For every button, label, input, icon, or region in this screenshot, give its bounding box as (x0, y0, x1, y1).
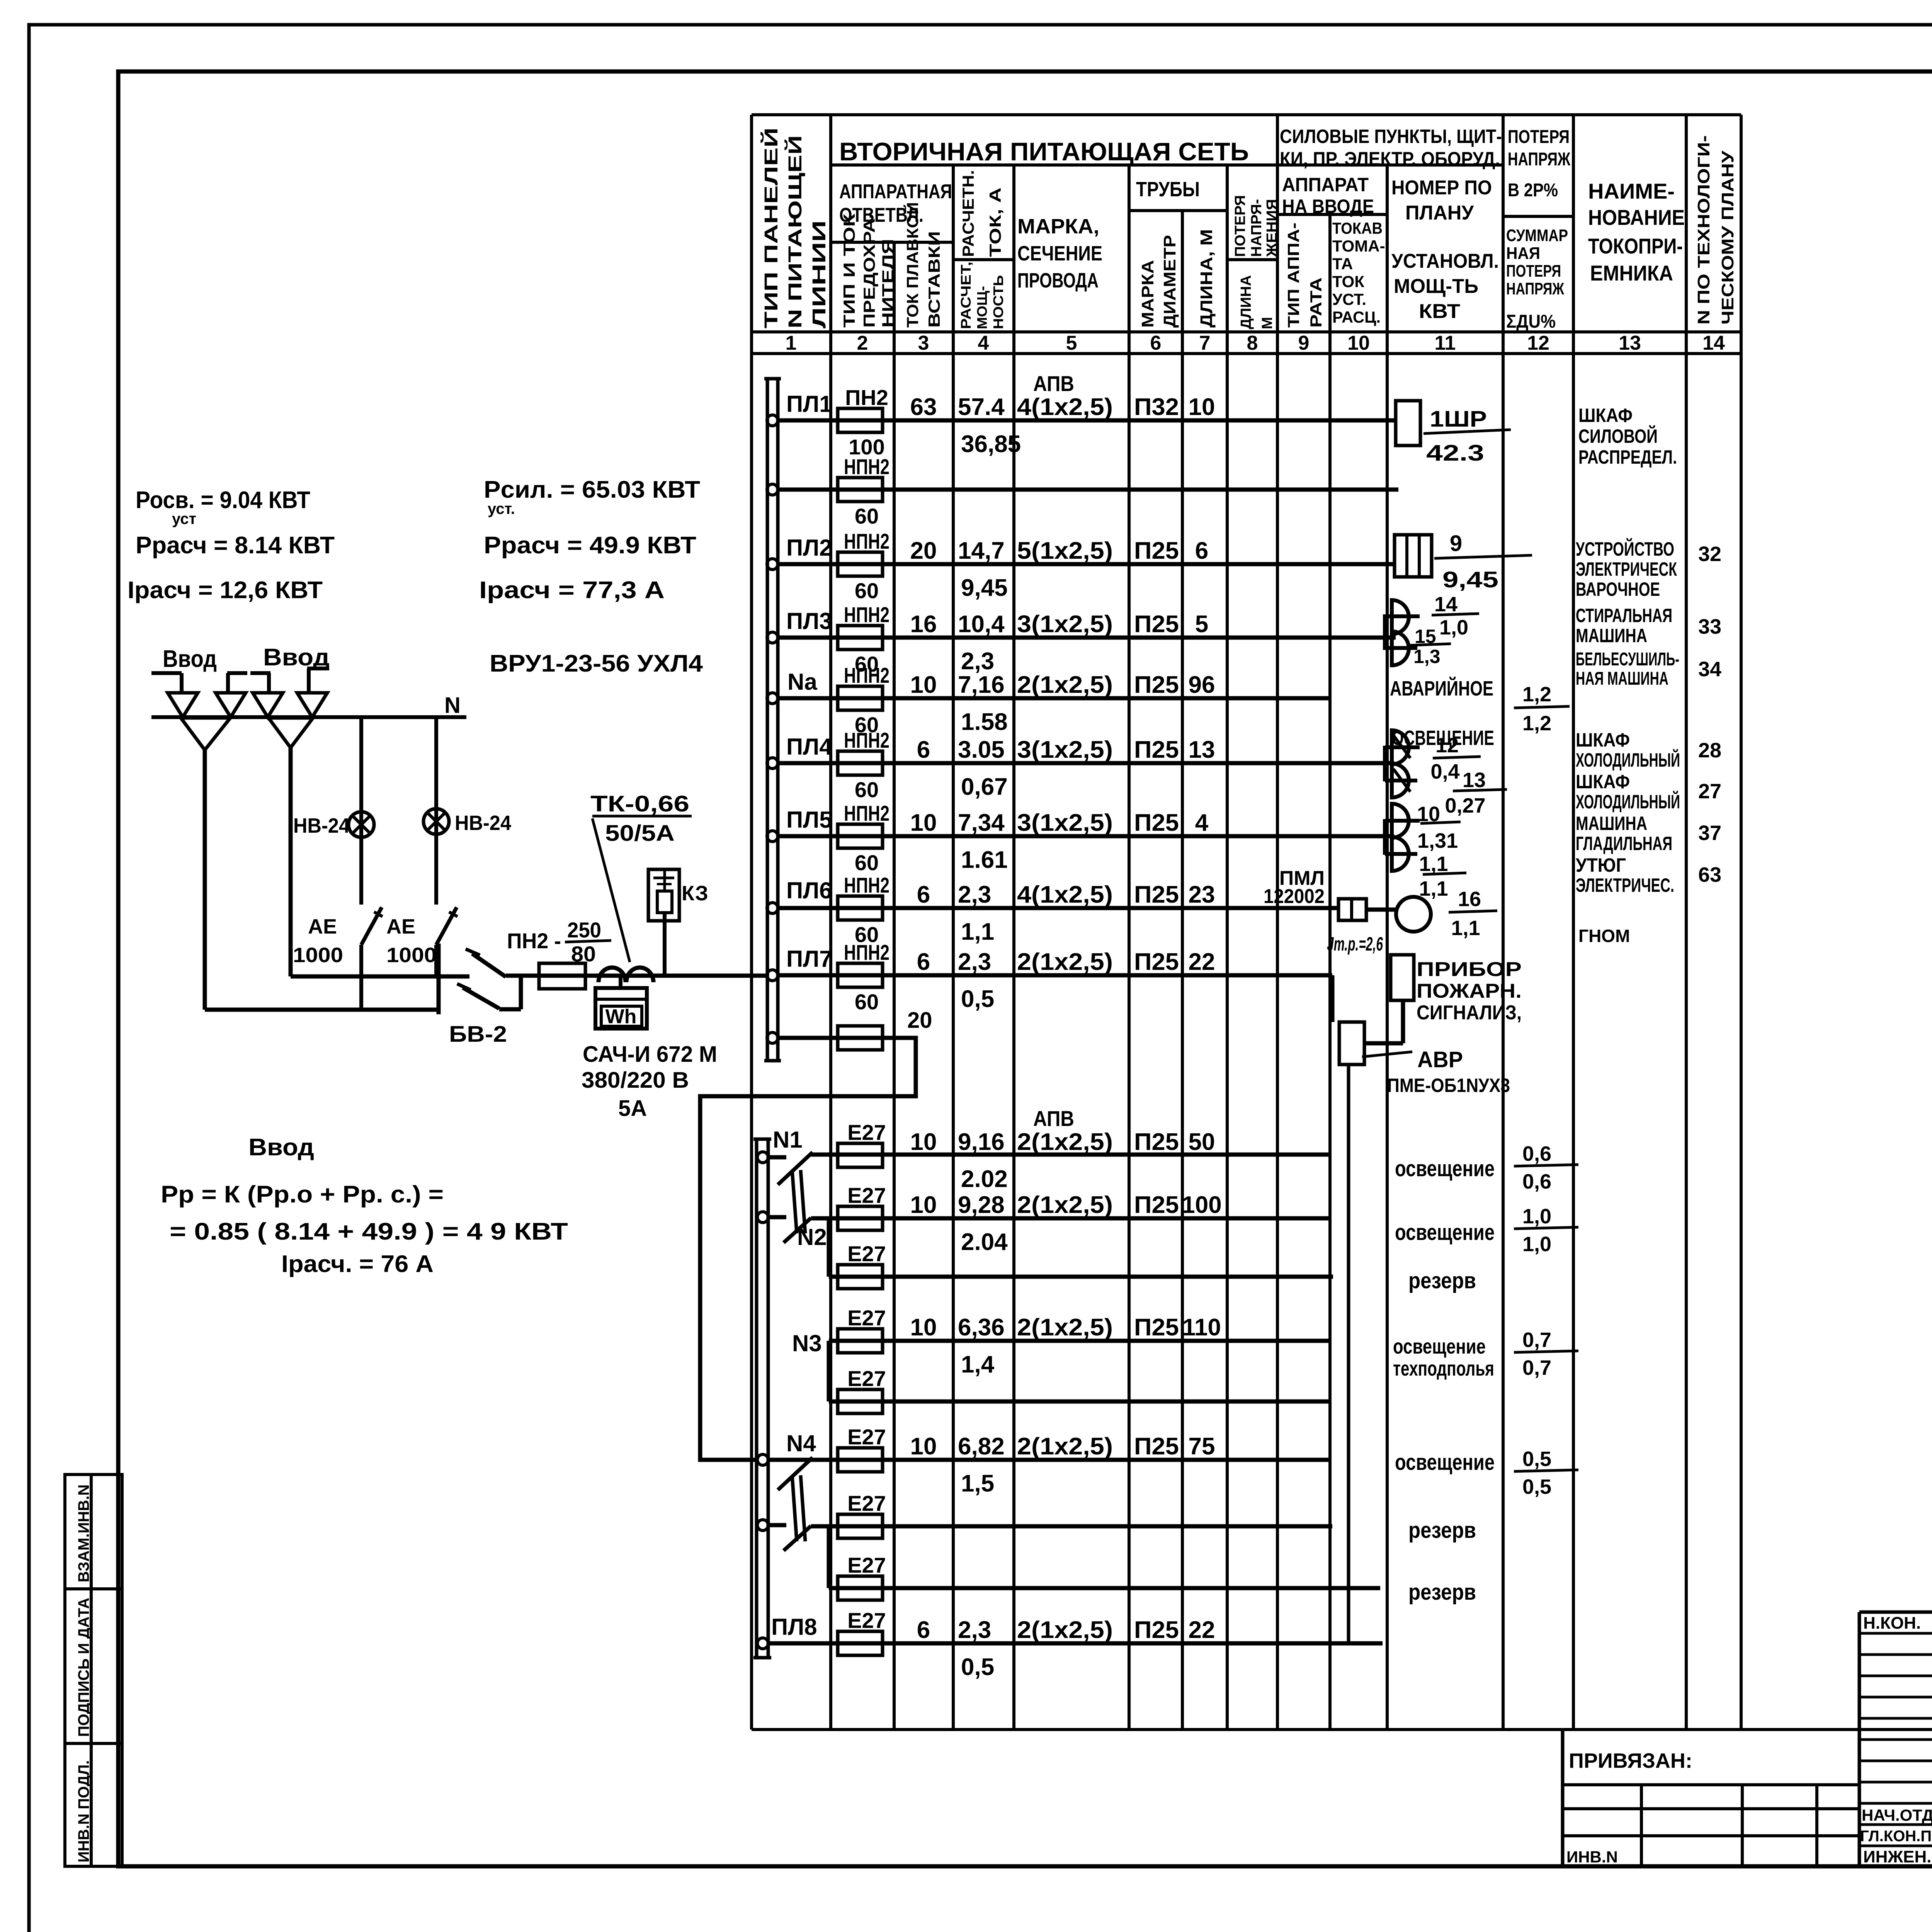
svg-text:33: 33 (1698, 615, 1721, 638)
svg-text:резерв: резерв (1408, 1518, 1476, 1543)
svg-text:8: 8 (1247, 332, 1258, 354)
svg-text:ТК-0,66: ТК-0,66 (590, 791, 689, 816)
svg-text:СУММАР: СУММАР (1506, 226, 1568, 245)
svg-text:ЖЕНИЯ: ЖЕНИЯ (1264, 199, 1280, 257)
svg-text:110: 110 (1182, 1314, 1221, 1341)
svg-text:1,3: 1,3 (1413, 646, 1440, 667)
svg-text:ПЛ8: ПЛ8 (771, 1614, 817, 1640)
wire reserve 1 (829, 1275, 1333, 1279)
svg-text:32: 32 (1698, 543, 1721, 566)
svg-text:2(1х2,5): 2(1х2,5) (1017, 1314, 1113, 1341)
svg-text:АВР: АВР (1417, 1047, 1463, 1072)
svg-text:60: 60 (855, 777, 879, 802)
svg-text:1,0: 1,0 (1522, 1233, 1551, 1256)
svg-text:ИНВ.N: ИНВ.N (1566, 1848, 1618, 1866)
svg-text:0,7: 0,7 (1522, 1328, 1551, 1352)
table vertical x=4364 (1685, 115, 1688, 1730)
svg-text:14: 14 (1434, 593, 1458, 616)
svg-text:6,82: 6,82 (958, 1433, 1005, 1460)
wire feeder ПЛ2 (767, 559, 778, 570)
table vertical x=3890 (1502, 115, 1505, 1730)
table vertical x=2467 (952, 165, 955, 1730)
svg-text:5А: 5А (618, 1096, 647, 1121)
table vertical x=3176 (1226, 165, 1229, 1730)
wire feeder ПЛ5 (767, 831, 778, 842)
svg-text:50/5А: 50/5А (605, 821, 675, 846)
svg-text:Е27: Е27 (847, 1491, 886, 1515)
svg-text:УСТРОЙСТВО: УСТРОЙСТВО (1576, 538, 1674, 560)
svg-text:3(1х2,5): 3(1х2,5) (1017, 611, 1113, 638)
svg-text:В 2Р%: В 2Р% (1508, 180, 1558, 201)
svg-text:75: 75 (1189, 1433, 1215, 1460)
svg-text:ШКАФ: ШКАФ (1576, 771, 1630, 793)
svg-text:ТОМА-: ТОМА- (1332, 237, 1385, 255)
svg-text:2.04: 2.04 (961, 1229, 1008, 1255)
svg-text:60: 60 (855, 504, 879, 528)
refrigerator lamp symbols ПЛ4 (1383, 746, 1387, 781)
svg-text:N2: N2 (797, 1224, 827, 1250)
svg-text:уст: уст (172, 510, 196, 527)
svg-text:ПОТЕРЯ: ПОТЕРЯ (1232, 195, 1248, 257)
svg-text:5: 5 (1195, 611, 1208, 638)
leader ТК (592, 818, 630, 962)
svg-text:1,4: 1,4 (961, 1351, 995, 1378)
svg-text:АПВ: АПВ (1033, 371, 1074, 396)
svg-text:N1: N1 (773, 1127, 803, 1153)
wire spare (N3 group) (829, 1400, 1331, 1404)
svg-text:освещение: освещение (1393, 1335, 1486, 1358)
svg-text:23: 23 (1189, 881, 1215, 908)
svg-text:1ШР: 1ШР (1430, 406, 1487, 432)
current transformer ТК-0,66 (599, 968, 626, 982)
svg-text:13: 13 (1619, 332, 1641, 354)
svg-text:10: 10 (910, 1433, 937, 1460)
svg-text:техподполья: техподполья (1393, 1357, 1494, 1380)
svg-text:НПН2: НПН2 (844, 801, 889, 825)
svg-text:Е27: Е27 (847, 1306, 886, 1330)
left margin stamp boxes (65, 1475, 122, 1866)
svg-text:9,16: 9,16 (958, 1129, 1005, 1155)
svg-text:16: 16 (1458, 888, 1481, 911)
svg-text:Nа: Nа (787, 669, 817, 695)
fuse НПН2-60 (spare) (838, 478, 883, 502)
svg-text:1000: 1000 (293, 944, 343, 967)
svg-text:1,0: 1,0 (1439, 616, 1468, 639)
svg-text:РАСЧЕТН.: РАСЧЕТН. (959, 170, 977, 257)
svg-text:4(1х2,5): 4(1х2,5) (1017, 394, 1113, 420)
lamp load symbols ПЛ3 (1383, 614, 1387, 650)
fire alarm device box (1391, 955, 1414, 1000)
svg-text:Iрасч = 77,3 А: Iрасч = 77,3 А (479, 577, 665, 604)
svg-text:9,28: 9,28 (958, 1192, 1005, 1218)
fuse Е27 (reserve 2) (838, 1514, 883, 1538)
svg-text:ЕМНИКА: ЕМНИКА (1590, 261, 1673, 285)
large triangles (inputs combine) (181, 718, 230, 750)
svg-text:Е27: Е27 (847, 1366, 886, 1391)
svg-text:N3: N3 (792, 1330, 822, 1356)
svg-text:Рсил. = 65.03 КВТ: Рсил. = 65.03 КВТ (484, 476, 700, 503)
svg-text:ПОЖАРН.: ПОЖАРН. (1417, 980, 1522, 1002)
svg-text:Е27: Е27 (847, 1242, 886, 1266)
svg-text:6: 6 (917, 881, 930, 908)
table vertical x=4072 (1572, 115, 1575, 1730)
wire feeder to lighting panel (down-left) (767, 1032, 778, 1043)
svg-text:НПН2: НПН2 (844, 663, 889, 687)
fuse (feeder to lighting panel) (838, 1026, 883, 1050)
svg-text:резерв: резерв (1408, 1268, 1476, 1293)
svg-text:САЧ-И 672 М: САЧ-И 672 М (583, 1042, 717, 1067)
svg-text:N ПО ТЕХНОЛОГИ-: N ПО ТЕХНОЛОГИ- (1694, 135, 1713, 325)
wire АВР down to ПЛ8 row (1347, 1065, 1350, 1643)
svg-text:12: 12 (1527, 332, 1549, 354)
svg-text:П25: П25 (1134, 1314, 1179, 1341)
svg-text:2(1х2,5): 2(1х2,5) (1017, 672, 1113, 698)
svg-text:АППАРАТ: АППАРАТ (1282, 174, 1369, 196)
svg-text:АПВ: АПВ (1033, 1106, 1074, 1131)
stub reserve 3 (827, 1526, 831, 1588)
fuse Е27 (spare N3 group) (838, 1389, 883, 1413)
input cable arrows (151, 671, 182, 675)
svg-text:0,6: 0,6 (1522, 1142, 1551, 1165)
svg-text:ХОЛОДИЛЬНЫЙ: ХОЛОДИЛЬНЫЙ (1576, 749, 1680, 771)
energy meter Wh (619, 975, 622, 988)
fuse Е27 (N1) (838, 1143, 883, 1167)
svg-text:МАШИНА: МАШИНА (1576, 813, 1647, 834)
svg-text:10: 10 (1189, 394, 1215, 420)
wire from triangle 2 down (289, 748, 293, 976)
svg-text:НАЯ: НАЯ (1506, 244, 1540, 263)
svg-text:10: 10 (910, 1192, 937, 1218)
svg-text:НПН2: НПН2 (844, 529, 889, 553)
iron lamp symbols ПЛ5 (1383, 819, 1387, 855)
svg-text:13: 13 (1463, 769, 1486, 792)
svg-text:250: 250 (567, 918, 601, 942)
svg-text:20: 20 (910, 537, 937, 564)
col8 divider (1227, 258, 1277, 261)
svg-text:ШКАФ: ШКАФ (1576, 729, 1630, 751)
svg-text:2: 2 (857, 332, 868, 354)
svg-text:Е27: Е27 (847, 1425, 886, 1449)
svg-text:14: 14 (1702, 332, 1725, 354)
wire feeder N1 (757, 1152, 768, 1163)
svg-text:АЕ: АЕ (386, 915, 415, 938)
svg-text:ГЛАДИЛЬНАЯ: ГЛАДИЛЬНАЯ (1576, 833, 1672, 854)
svg-text:ХОЛОДИЛЬНЫЙ: ХОЛОДИЛЬНЫЙ (1576, 791, 1680, 813)
svg-text:4: 4 (978, 332, 989, 354)
svg-text:6: 6 (917, 1617, 930, 1643)
svg-text:100: 100 (1182, 1192, 1221, 1218)
svg-text:освещение: освещение (1395, 1220, 1495, 1245)
svg-text:22: 22 (1189, 1617, 1215, 1643)
svg-text:МАШИНА: МАШИНА (1576, 625, 1647, 646)
svg-text:ПЛ6: ПЛ6 (786, 878, 832, 903)
svg-text:10: 10 (910, 672, 937, 698)
lamp НВ-24 (1) (349, 812, 374, 837)
svg-text:Ввод: Ввод (248, 1134, 314, 1161)
svg-text:Е27: Е27 (847, 1183, 886, 1207)
fuse НПН2-60 (ПЛ4) (838, 751, 883, 775)
svg-text:ЛИНИИ: ЛИНИИ (809, 220, 830, 328)
svg-text:НА ВВОДЕ: НА ВВОДЕ (1282, 196, 1374, 217)
svg-text:2(1х2,5): 2(1х2,5) (1017, 949, 1113, 975)
svg-text:ТОК ПЛАВКОЙ: ТОК ПЛАВКОЙ (903, 202, 922, 328)
table vertical x=3590 (1386, 165, 1389, 1730)
svg-text:АППАРАТНАЯ: АППАРАТНАЯ (839, 180, 952, 203)
svg-text:50: 50 (1189, 1129, 1215, 1155)
svg-text:0,7: 0,7 (1522, 1356, 1551, 1379)
svg-text:ТОК, А: ТОК, А (986, 187, 1004, 257)
svg-text:37: 37 (1698, 821, 1721, 845)
svg-text:ГНОМ: ГНОМ (1578, 926, 1630, 946)
svg-text:РАСЦ.: РАСЦ. (1332, 308, 1381, 326)
svg-text:3.05: 3.05 (958, 736, 1005, 763)
motor ГНОМ circle (1396, 897, 1431, 932)
table vertical x=2150 (829, 115, 832, 1730)
svg-text:0,5: 0,5 (1522, 1447, 1551, 1471)
svg-text:П25: П25 (1134, 1129, 1179, 1155)
svg-text:СИГНАЛИЗ,: СИГНАЛИЗ, (1417, 1002, 1522, 1024)
svg-text:ПЛ2: ПЛ2 (786, 535, 832, 561)
line under Трубы (1129, 209, 1227, 212)
table vertical x=4506 (1740, 115, 1743, 1730)
svg-text:УТЮГ: УТЮГ (1576, 854, 1626, 876)
svg-text:ДИАМЕТР: ДИАМЕТР (1160, 235, 1179, 328)
svg-text:ПОТЕРЯ: ПОТЕРЯ (1508, 127, 1570, 147)
fuse КЗ box (648, 869, 679, 921)
svg-text:ЧЕСКОМУ ПЛАНУ: ЧЕСКОМУ ПЛАНУ (1718, 150, 1737, 325)
stub N3 (827, 1341, 831, 1401)
table vertical x=2922 (1128, 165, 1131, 1730)
svg-text:0,6: 0,6 (1522, 1170, 1551, 1193)
svg-text:НАПРЯЖ: НАПРЯЖ (1508, 149, 1570, 170)
table vertical x=3306 (1276, 115, 1279, 1730)
svg-text:6: 6 (1195, 537, 1208, 564)
switch АЕ1000 blade 2 (436, 907, 457, 945)
svg-text:П25: П25 (1134, 1433, 1179, 1460)
fuse НПН2-60 (ПЛ2) (838, 552, 883, 576)
fuse Е27 (N3) (838, 1329, 883, 1353)
svg-text:3(1х2,5): 3(1х2,5) (1017, 810, 1113, 836)
svg-text:ПОДПИСЬ И ДАТА: ПОДПИСЬ И ДАТА (75, 1598, 92, 1737)
svg-text:ПЛ1: ПЛ1 (786, 391, 832, 417)
svg-text:1,0: 1,0 (1522, 1205, 1551, 1228)
svg-text:36,85: 36,85 (961, 431, 1021, 457)
svg-text:Ррасч = 8.14 КВТ: Ррасч = 8.14 КВТ (136, 532, 335, 559)
svg-text:1,1: 1,1 (1419, 877, 1448, 900)
svg-text:КИ, ПР. ЭЛЕКТР. ОБОРУД.: КИ, ПР. ЭЛЕКТР. ОБОРУД. (1280, 148, 1500, 170)
svg-text:N: N (444, 693, 461, 718)
table bottom / title block top line (752, 1728, 1932, 1731)
svg-text:ДЛИНА: ДЛИНА (1238, 275, 1254, 329)
svg-text:НОВАНИЕ: НОВАНИЕ (1588, 205, 1685, 230)
svg-text:5(1х2,5): 5(1х2,5) (1017, 537, 1113, 564)
svg-text:6: 6 (1150, 332, 1162, 354)
switch АЕ1000 blade 1 (361, 907, 382, 945)
svg-text:380/220 В: 380/220 В (582, 1068, 689, 1093)
svg-text:ВРУ1-23-56 УХЛ4: ВРУ1-23-56 УХЛ4 (490, 650, 703, 677)
fuse Е27 (ПЛ8) (838, 1631, 883, 1655)
svg-text:НАЯ МАШИНА: НАЯ МАШИНА (1576, 668, 1668, 689)
svg-text:28: 28 (1698, 739, 1721, 762)
fuse Е27 (N4) (838, 1448, 883, 1472)
svg-text:ВТОРИЧНАЯ ПИТАЮЩАЯ СЕТЬ: ВТОРИЧНАЯ ПИТАЮЩАЯ СЕТЬ (839, 137, 1249, 166)
table vertical x=3442 (1328, 214, 1332, 1730)
svg-text:ЭЛЕКТРИЧЕСК: ЭЛЕКТРИЧЕСК (1576, 558, 1677, 580)
svg-text:2(1х2,5): 2(1х2,5) (1017, 1129, 1113, 1155)
svg-text:Jт.р.=2,6: Jт.р.=2,6 (1327, 933, 1383, 955)
svg-text:ИНВ.N ПОДЛ.: ИНВ.N ПОДЛ. (75, 1760, 92, 1862)
svg-text:0,5: 0,5 (1522, 1475, 1551, 1498)
bus break symbol (778, 1458, 813, 1490)
svg-text:НПН2: НПН2 (844, 602, 889, 627)
svg-text:МОЩ-: МОЩ- (974, 286, 990, 329)
lamp НВ-24 (2) (423, 809, 449, 834)
svg-text:1,1: 1,1 (961, 918, 994, 945)
wire reserve 3 (829, 1586, 1380, 1590)
svg-text:9: 9 (1450, 531, 1462, 556)
svg-text:1: 1 (786, 332, 797, 354)
svg-text:ТИП ПАНЕЛЕЙ: ТИП ПАНЕЛЕЙ (760, 128, 782, 328)
svg-text:ПЛ4: ПЛ4 (786, 734, 832, 760)
svg-text:МОЩ-ТЬ: МОЩ-ТЬ (1394, 275, 1478, 298)
svg-text:0,4: 0,4 (1430, 760, 1459, 783)
stub N2 to reserve (827, 1218, 831, 1277)
wire N bus horizontal (151, 715, 466, 719)
electric cooker symbol (1395, 535, 1432, 577)
svg-text:НАИМЕ-: НАИМЕ- (1588, 179, 1675, 203)
line under Аппаратная ответвл. (831, 241, 953, 244)
title block left edge (1561, 1730, 1565, 1866)
svg-text:0,27: 0,27 (1445, 794, 1485, 817)
wire feeder N3 (829, 1339, 1329, 1343)
svg-text:7,16: 7,16 (958, 672, 1005, 698)
svg-text:П25: П25 (1134, 1617, 1179, 1643)
svg-text:9: 9 (1298, 332, 1310, 354)
svg-text:ТОКОПРИ-: ТОКОПРИ- (1588, 234, 1683, 258)
svg-text:ПЛ7: ПЛ7 (786, 946, 832, 972)
svg-text:Ввод: Ввод (163, 646, 217, 672)
wire to motor (1366, 908, 1396, 912)
svg-text:ГЛ.КОН.ПР.: ГЛ.КОН.ПР. (1860, 1828, 1932, 1845)
svg-text:ШКАФ: ШКАФ (1578, 405, 1633, 426)
svg-text:3: 3 (918, 332, 929, 354)
table vertical x=2314 (893, 242, 896, 1730)
svg-text:122002: 122002 (1264, 885, 1325, 908)
svg-text:ПН2 -: ПН2 - (507, 929, 561, 953)
svg-text:ВАРОЧНОЕ: ВАРОЧНОЕ (1576, 578, 1660, 600)
table numbers row line (752, 352, 1741, 355)
svg-text:10: 10 (1347, 332, 1370, 354)
svg-text:2(1х2,5): 2(1х2,5) (1017, 1617, 1113, 1643)
svg-text:ТИП АППА-: ТИП АППА- (1284, 223, 1303, 328)
table vertical x=3060 (1181, 211, 1184, 1730)
svg-text:ВСТАВКИ: ВСТАВКИ (925, 231, 943, 328)
fuse НПН2-60 (ПЛ6) (838, 896, 883, 920)
wire feeder ПЛ3 (767, 632, 778, 643)
svg-text:Рр = К (Рр.о + Рр. с.) =: Рр = К (Рр.о + Рр. с.) = (161, 1181, 444, 1208)
svg-text:ТРУБЫ: ТРУБЫ (1136, 178, 1200, 201)
svg-text:14,7: 14,7 (958, 537, 1005, 564)
svg-text:освещение: освещение (1395, 1450, 1495, 1475)
svg-text:10: 10 (910, 1129, 937, 1155)
svg-text:Iрасч. = 76 А: Iрасч. = 76 А (281, 1251, 434, 1277)
wire feeder ПЛ1 (767, 415, 778, 426)
svg-text:уст.: уст. (488, 500, 515, 517)
fuse НПН2-60 (ПЛ3) (838, 626, 883, 650)
svg-text:1,31: 1,31 (1417, 829, 1458, 852)
svg-text:П25: П25 (1134, 810, 1179, 836)
contactor symbol (1338, 899, 1366, 920)
fuse НПН2-60 (ПЛ7) (838, 963, 883, 987)
svg-text:16: 16 (910, 611, 937, 638)
svg-text:9,45: 9,45 (961, 575, 1008, 601)
wire feeder N2 (757, 1212, 768, 1223)
wire feeder reserve 2 (757, 1520, 768, 1531)
table top line (752, 113, 1741, 116)
wire feeder ПЛ4 (767, 758, 778, 769)
svg-text:0,5: 0,5 (961, 986, 994, 1012)
svg-text:ДЛИНА, М: ДЛИНА, М (1197, 229, 1216, 328)
wire from triangle 1 down (203, 750, 207, 1010)
svg-text:N4: N4 (786, 1430, 816, 1456)
personnel table (1859, 1611, 1932, 1614)
svg-text:П25: П25 (1134, 736, 1179, 763)
svg-text:АВАРИЙНОЕ: АВАРИЙНОЕ (1390, 677, 1493, 700)
svg-text:РАСПРЕДЕЛ.: РАСПРЕДЕЛ. (1578, 446, 1677, 468)
svg-text:4: 4 (1195, 810, 1209, 836)
svg-text:4(1х2,5): 4(1х2,5) (1017, 881, 1113, 908)
svg-text:Н.КОН.: Н.КОН. (1863, 1614, 1921, 1633)
svg-text:7,34: 7,34 (958, 810, 1005, 836)
svg-text:9,45: 9,45 (1442, 567, 1498, 592)
svg-text:НВ-24: НВ-24 (293, 814, 350, 837)
svg-text:Е27: Е27 (847, 1553, 886, 1577)
svg-text:1,5: 1,5 (961, 1470, 994, 1497)
fuse Е27 (N2) (838, 1206, 883, 1230)
svg-text:13: 13 (1189, 736, 1215, 763)
svg-text:1,2: 1,2 (1522, 683, 1551, 706)
svg-text:Росв. = 9.04 КВТ: Росв. = 9.04 КВТ (136, 487, 310, 514)
wire КЗ to main (663, 913, 667, 975)
svg-text:ТОКАВ: ТОКАВ (1332, 219, 1383, 237)
distribution cabinet 1ШР symbol (1396, 401, 1420, 446)
svg-text:УСТ.: УСТ. (1332, 290, 1366, 308)
svg-text:6,36: 6,36 (958, 1314, 1005, 1341)
svg-text:НИТЕЛЯ: НИТЕЛЯ (879, 239, 897, 328)
svg-text:11: 11 (1435, 332, 1456, 354)
wire feeder ПЛ6 (767, 903, 778, 913)
svg-text:П25: П25 (1134, 611, 1179, 638)
svg-text:ТОК: ТОК (1332, 272, 1364, 291)
wire АВР to fire alarm device (1364, 1041, 1403, 1046)
svg-text:10,4: 10,4 (958, 611, 1005, 638)
svg-text:НПН2: НПН2 (844, 728, 889, 752)
svg-text:П25: П25 (1134, 949, 1179, 975)
svg-text:= 0.85 ( 8.14 + 49.9 ) = 4 9: = 0.85 ( 8.14 + 49.9 ) = 4 9 КВТ (170, 1218, 568, 1245)
wire feeder Nа (767, 693, 778, 704)
svg-text:НПН2: НПН2 (844, 940, 889, 964)
svg-text:СИЛОВЫЕ ПУНКТЫ, ЩИТ-: СИЛОВЫЕ ПУНКТЫ, ЩИТ- (1280, 126, 1502, 147)
svg-text:2,3: 2,3 (958, 949, 991, 975)
fuse ПН2-250/80 (539, 963, 585, 989)
svg-text:НВ-24: НВ-24 (455, 811, 511, 835)
svg-text:5: 5 (1066, 332, 1077, 354)
svg-text:60: 60 (855, 990, 879, 1014)
svg-text:2,3: 2,3 (961, 648, 994, 675)
svg-text:ПЛАНУ: ПЛАНУ (1405, 202, 1474, 224)
svg-text:63: 63 (1698, 863, 1721, 886)
svg-text:1,1: 1,1 (1419, 852, 1448, 876)
